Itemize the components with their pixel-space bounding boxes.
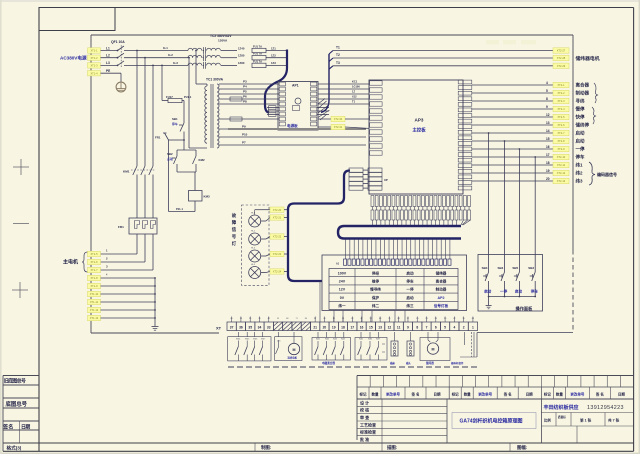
wire lamp 1 to cable [284, 217, 289, 219]
svg-text:停车: 停车 [576, 154, 585, 161]
centering marks [12, 159, 29, 298]
svg-text:启动: 启动 [515, 288, 523, 293]
terminal XT1-4 [88, 71, 101, 76]
terminal XT2-7 [553, 130, 569, 135]
connector J1 socket [390, 332, 398, 365]
svg-text:标记: 标记 [451, 391, 460, 396]
wire AP1 to AP3 signal lines [318, 80, 369, 104]
wire TC1 secondary taps P3-P8 [219, 80, 279, 121]
svg-text:L2: L2 [106, 54, 110, 58]
svg-text:纬1: 纬1 [576, 162, 583, 169]
terminal XT2-9 [553, 146, 569, 151]
svg-text:8: 8 [416, 326, 418, 330]
terminal XT1-3 [88, 63, 101, 68]
svg-text:PE: PE [106, 69, 110, 73]
wire output 15 启动 [472, 137, 553, 141]
supplier info cell [541, 399, 633, 443]
svg-text:6: 6 [435, 326, 437, 330]
connector XS column [349, 168, 368, 190]
svg-text:21: 21 [313, 326, 317, 330]
svg-text:SB4: SB4 [498, 266, 504, 270]
svg-text:0V: 0V [340, 296, 345, 300]
svg-text:P5: P5 [243, 90, 247, 94]
svg-text:KM1: KM1 [123, 170, 130, 174]
svg-text:编码器信号: 编码器信号 [597, 171, 617, 177]
svg-text:FU1 7A: FU1 7A [253, 52, 262, 56]
coil KM3 contactor [169, 172, 210, 212]
svg-text:T1: T1 [336, 46, 340, 50]
svg-text:12V: 12V [339, 288, 346, 292]
svg-text:P10: P10 [242, 133, 248, 137]
svg-text:L3: L3 [106, 61, 110, 65]
svg-text:XT1-10: XT1-10 [90, 292, 99, 296]
svg-text:停车: 停车 [406, 279, 414, 284]
contactor KM1 main poles [123, 162, 155, 177]
terminal XT1-12 [88, 307, 101, 312]
svg-text:1: 1 [472, 326, 474, 330]
svg-text:旧底图总号: 旧底图总号 [4, 378, 26, 385]
wire lamp 3 to cable [284, 253, 289, 255]
terminal XT1-10 [88, 291, 101, 296]
svg-text:签 名: 签 名 [503, 391, 512, 396]
svg-text:日期: 日期 [526, 391, 534, 396]
svg-text:校 核: 校 核 [360, 407, 369, 413]
svg-text:SB1: SB1 [172, 117, 178, 121]
svg-text:离合器: 离合器 [436, 279, 447, 284]
label main motor [63, 252, 88, 272]
svg-text:更改单号: 更改单号 [570, 391, 584, 396]
wire lamp 2 to cable [284, 236, 289, 238]
wire cable AP1 right to T-group [321, 51, 333, 113]
wire output 18 纬1 [472, 161, 553, 165]
terminal XT2-27 [553, 48, 569, 53]
svg-text:36: 36 [239, 326, 243, 330]
terminal XT1-6 [88, 259, 101, 264]
svg-text:电源板: 电源板 [287, 123, 298, 128]
motor M1 weft selector box [275, 332, 302, 361]
brace stop group [592, 107, 596, 124]
svg-text:数量: 数量 [371, 391, 380, 396]
wire stubs above strip [232, 317, 473, 323]
node control tap [161, 65, 163, 101]
svg-text:丰田纺织板供应: 丰田纺织板供应 [544, 404, 579, 411]
motor M2 weft accumulator box [420, 332, 450, 365]
button SB4 启动 [482, 254, 492, 297]
connector J2 socket [406, 332, 414, 365]
svg-text:SB3: SB3 [528, 266, 534, 270]
svg-text:纬3: 纬3 [576, 178, 583, 185]
terminal XT1-11 [88, 299, 101, 304]
wire PE to earth [101, 69, 122, 82]
op-board AP2 signal lamp board [322, 255, 467, 311]
svg-text:100V: 100V [338, 271, 347, 275]
svg-text:37: 37 [230, 326, 234, 330]
svg-text:慢停: 慢停 [576, 106, 585, 113]
svg-text:1Z1: 1Z1 [271, 46, 276, 50]
svg-text:KM2: KM2 [199, 158, 205, 162]
svg-text:操纵杆组件: 操纵杆组件 [451, 361, 464, 365]
wire XT box1 to frame right [477, 332, 573, 334]
wire thick cable into AP1 left [265, 50, 287, 113]
panel operator box [478, 255, 543, 312]
svg-text:签 名: 签 名 [411, 391, 420, 396]
svg-text:QF1 10A: QF1 10A [111, 40, 125, 44]
terminal XT1-5 [88, 251, 101, 256]
svg-text:第 1 张: 第 1 张 [580, 418, 592, 423]
svg-text:5: 5 [444, 326, 446, 330]
signal lamp group fault indicator [232, 205, 269, 285]
svg-text:1Z2: 1Z2 [271, 54, 276, 58]
wire lever assembly drops [451, 332, 477, 365]
svg-text:标记: 标记 [359, 391, 368, 396]
title block table [357, 376, 634, 441]
wire output 19 纬2 [472, 169, 553, 173]
svg-text:XT2-7: XT2-7 [557, 131, 565, 135]
top-left stamp box [39, 8, 115, 31]
svg-text:120VA: 120VA [218, 39, 228, 43]
svg-text:20: 20 [323, 326, 327, 330]
svg-text:XT2-1: XT2-1 [557, 83, 565, 87]
svg-text:XT2-24: XT2-24 [273, 270, 282, 274]
svg-text:日期: 日期 [434, 391, 442, 396]
svg-text:13: 13 [546, 121, 550, 125]
svg-text:XT1-9: XT1-9 [90, 284, 98, 288]
connector XP column AP3 lower-left pins [368, 168, 388, 190]
svg-text:XT2-4: XT2-4 [557, 107, 565, 111]
svg-text:11: 11 [397, 326, 401, 330]
svg-text:12: 12 [388, 326, 392, 330]
wire output 12 快停 [472, 113, 553, 117]
svg-text:纬三: 纬三 [406, 303, 414, 308]
connector second pin row [371, 210, 471, 220]
terminal XT1-8 [88, 275, 101, 280]
svg-text:1Z40: 1Z40 [238, 46, 245, 50]
wire output 14 启动 [472, 129, 553, 133]
svg-text:储纬停: 储纬停 [576, 122, 590, 129]
svg-text:4: 4 [453, 326, 455, 330]
svg-text:比例: 比例 [544, 418, 551, 423]
svg-text:启动: 启动 [576, 130, 585, 137]
svg-text:TC1 300VA: TC1 300VA [206, 78, 224, 82]
svg-text:标准检查: 标准检查 [359, 429, 376, 435]
svg-text:XT2-31: XT2-31 [334, 125, 343, 129]
svg-text:XT1-12: XT1-12 [90, 308, 99, 312]
svg-text:XT1-3: XT1-3 [90, 64, 98, 68]
wire TC1 primary feeds [188, 50, 197, 148]
svg-text:纬一: 纬一 [338, 303, 346, 308]
wire thick cable lamps bus [288, 171, 350, 282]
AP3 left pin headers [370, 81, 383, 155]
svg-text:1L1: 1L1 [163, 46, 168, 50]
svg-text:启动: 启动 [406, 270, 414, 275]
wire output 16 一停 [472, 145, 553, 149]
svg-text:P9: P9 [242, 125, 246, 129]
wire panel common [489, 297, 536, 306]
svg-text:慢寻纬: 慢寻纬 [370, 287, 381, 292]
op-board AP3 main control board [369, 80, 463, 194]
svg-text:SB4: SB4 [482, 266, 488, 270]
svg-text:X12: X12 [352, 95, 357, 99]
svg-text:插座: 插座 [390, 361, 395, 365]
terminal XT2-3 [553, 98, 569, 103]
svg-text:18: 18 [341, 326, 345, 330]
svg-text:13912954223: 13912954223 [587, 405, 624, 411]
terminal XT1-7 [88, 267, 101, 272]
svg-text:XT2-9: XT2-9 [557, 147, 565, 151]
wire lamp common feed [255, 210, 270, 215]
svg-text:1L2: 1L2 [168, 53, 173, 57]
svg-text:XT2-11: XT2-11 [557, 163, 566, 167]
svg-text:35: 35 [248, 326, 252, 330]
terminal XT2-29 [553, 63, 569, 68]
svg-text:SB2: SB2 [167, 152, 173, 156]
terminal strip XT [216, 318, 478, 330]
svg-text:储纬器电机: 储纬器电机 [575, 55, 600, 62]
terminal XT2-22 [270, 234, 284, 239]
svg-text:启动: 启动 [484, 288, 492, 293]
AP3 right pin headers [458, 80, 472, 190]
svg-text:XT2-6: XT2-6 [557, 123, 565, 127]
svg-text:XT2-3: XT2-3 [557, 99, 565, 103]
svg-text:1Z: 1Z [352, 90, 355, 94]
svg-text:1Z80: 1Z80 [238, 54, 245, 58]
svg-text:电磁离合器: 电磁离合器 [322, 361, 335, 365]
svg-text:33: 33 [267, 326, 271, 330]
svg-text:XT1-6: XT1-6 [90, 260, 98, 264]
svg-text:XT2-21: XT2-21 [273, 216, 282, 220]
svg-text:FR1: FR1 [155, 136, 161, 140]
wire output 4 离合器 [472, 81, 553, 85]
svg-text:插头: 插头 [406, 361, 411, 365]
svg-text:更改单号: 更改单号 [478, 391, 492, 396]
lamp HL2 [249, 231, 270, 246]
svg-text:12: 12 [546, 113, 550, 117]
svg-text:15: 15 [369, 326, 373, 330]
svg-text:描图:: 描图: [386, 444, 398, 451]
terminal XT2-23 [270, 251, 284, 256]
transformer TC1 300VA [189, 78, 224, 149]
node phase taps to motor branch [136, 50, 154, 67]
wire output 20 纬3 [472, 177, 553, 181]
svg-text:T2: T2 [336, 53, 340, 57]
svg-text:主控板: 主控板 [412, 127, 426, 134]
under-strip bottom dashed rail [228, 366, 477, 368]
svg-text:寻纬: 寻纬 [576, 98, 585, 105]
terminal XT2-2 [553, 90, 569, 95]
wire common to cable [284, 209, 289, 211]
svg-text:16: 16 [546, 145, 550, 149]
svg-text:5: 5 [546, 89, 548, 93]
svg-text:TC2 380V/42V: TC2 380V/42V [210, 34, 232, 38]
wire long rails P9 P10 P7 [219, 125, 366, 145]
svg-text:T3: T3 [336, 61, 340, 65]
svg-text:XT2-8: XT2-8 [557, 139, 565, 143]
svg-text:34: 34 [258, 326, 262, 330]
wire output 5 制动器 [472, 89, 553, 93]
svg-text:KM3: KM3 [204, 195, 210, 199]
svg-text:1L3: 1L3 [173, 61, 178, 65]
svg-text:制图:: 制图: [261, 444, 272, 451]
svg-text:XT1-7: XT1-7 [90, 268, 98, 272]
svg-text:XT2-12: XT2-12 [557, 171, 566, 175]
terminal XT2-4 [553, 106, 569, 111]
wire AP2 to strip stubs [320, 281, 405, 322]
terminal XT2-30 [318, 118, 331, 120]
svg-text:日期: 日期 [618, 391, 626, 396]
brace encoder signal group [589, 162, 617, 185]
table AP2 signal definitions [329, 269, 458, 310]
svg-text:PJ1-1: PJ1-1 [176, 207, 183, 211]
svg-text:一停: 一停 [406, 287, 414, 292]
terminal XT2-11 [553, 162, 569, 167]
wire drops to operator panel [488, 132, 536, 254]
svg-text:储纬器: 储纬器 [435, 270, 447, 275]
svg-text:P4: P4 [243, 85, 247, 89]
svg-text:8: 8 [546, 97, 548, 101]
svg-text:XT2-10: XT2-10 [557, 155, 566, 159]
svg-text:P8: P8 [243, 100, 247, 104]
svg-text:XT1-8: XT1-8 [90, 276, 98, 280]
contact FR1 auxiliary [155, 133, 185, 212]
svg-text:XT: XT [216, 325, 222, 330]
svg-text:操作面板: 操作面板 [516, 305, 534, 312]
svg-text:停车: 停车 [531, 288, 539, 293]
wire lamp 4 to cable [284, 271, 289, 273]
wire FR1 to motor terminals U V W [101, 234, 154, 270]
svg-text:1Z80: 1Z80 [238, 61, 245, 65]
schematic boundary frame [91, 35, 573, 333]
svg-text:FR1: FR1 [118, 225, 124, 229]
svg-text:XT2-2: XT2-2 [557, 91, 565, 95]
button SB4 一停 [498, 254, 508, 297]
left margin document-number boxes [2, 376, 39, 452]
svg-text:M: M [432, 347, 435, 351]
svg-text:1Z3: 1Z3 [271, 61, 276, 65]
breaker QF1 10A [111, 40, 125, 67]
lamp HL1 [249, 213, 270, 228]
terminal XT2-13 [553, 178, 569, 183]
svg-text:一停: 一停 [576, 146, 585, 153]
relay FR1 thermal overload [118, 218, 157, 234]
svg-text:设 计: 设 计 [360, 399, 369, 405]
svg-text:停经: 停经 [372, 270, 380, 275]
wire stubs into ribbon bus [372, 220, 470, 225]
label motor wire numbers [106, 249, 108, 277]
svg-text:选纬电机: 选纬电机 [288, 355, 298, 359]
drawing title cell [452, 413, 536, 429]
wire XT2-30 to AP3 [345, 118, 369, 120]
svg-text:底图总号: 底图总号 [6, 400, 28, 408]
title block signature rows [357, 399, 447, 443]
transformer TC2 380V/42V 120VA [188, 34, 237, 69]
svg-text:XT1-2: XT1-2 [90, 56, 98, 60]
svg-text:FU1 7A: FU1 7A [253, 44, 262, 48]
ground symbol motor bus [152, 321, 159, 330]
wire AP1 left feed stubs [267, 106, 279, 117]
brace clutch group [594, 83, 598, 103]
terminal XT2-10 [553, 154, 569, 159]
terminal XT2-8 [553, 138, 569, 143]
AP3 bottom pin row [371, 196, 471, 211]
svg-text:签 名: 签 名 [2, 423, 13, 430]
svg-text:AP2: AP2 [438, 296, 445, 300]
svg-text:制动器: 制动器 [436, 287, 447, 292]
svg-text:9: 9 [407, 326, 409, 330]
wire T1 T2 T3 to weft accumulator [333, 46, 553, 66]
contact group weft selection KM4-KM7 [228, 332, 271, 361]
svg-text:数量: 数量 [463, 391, 472, 396]
svg-text:点动: 点动 [167, 156, 173, 161]
terminal XT2-1 [553, 82, 569, 87]
terminal XT2-20 [270, 207, 284, 212]
svg-text:KC1: KC1 [352, 80, 358, 84]
svg-text:保护: 保护 [371, 295, 380, 300]
svg-text:更改单号: 更改单号 [386, 391, 400, 396]
svg-text:XP: XP [384, 178, 388, 182]
svg-text:XT2-20: XT2-20 [273, 208, 282, 212]
svg-text:启动: 启动 [406, 295, 414, 300]
svg-text:格式(3): 格式(3) [7, 444, 22, 451]
ground symbol panel [486, 306, 492, 309]
op-board AP1 power supply board [278, 82, 318, 131]
svg-text:离合器: 离合器 [576, 82, 590, 89]
fuse FU1 7A group with 1Z wires [238, 44, 287, 67]
svg-text:数量: 数量 [555, 391, 564, 396]
svg-text:AP1: AP1 [292, 84, 299, 88]
svg-text:GA74剑杆织机电控箱原理图: GA74剑杆织机电控箱原理图 [459, 418, 522, 425]
switch SB1 stop button [172, 117, 184, 140]
svg-text:SB5: SB5 [512, 266, 518, 270]
svg-text:16: 16 [360, 326, 364, 330]
svg-text:19: 19 [332, 326, 336, 330]
svg-text:储纬器: 储纬器 [426, 361, 434, 365]
wire AP1 right bundle rows [317, 108, 329, 115]
terminal XT2-21 [270, 215, 284, 220]
wire output 13 储纬停 [472, 121, 553, 125]
svg-text:纬二: 纬二 [372, 303, 380, 308]
switch SB2 jog button with KM2 contact [167, 140, 205, 172]
contact group brake [355, 332, 387, 360]
svg-text:4: 4 [546, 81, 548, 85]
terminal XT1-13 [88, 315, 101, 320]
wire jog diagonals AP1 to AP3 [318, 99, 330, 121]
svg-text:启动: 启动 [576, 138, 585, 145]
wire output 8 寻纬 [472, 97, 553, 101]
svg-text:停车: 停车 [172, 121, 178, 126]
fuse FU17 control [162, 95, 192, 120]
svg-text:XT1-4: XT1-4 [90, 71, 98, 75]
svg-text:17: 17 [350, 326, 354, 330]
svg-text:13: 13 [378, 326, 382, 330]
ground earth symbol PE [116, 82, 126, 92]
svg-text:7: 7 [426, 326, 428, 330]
svg-text:15: 15 [546, 137, 550, 141]
wire KM1 to FR1 [137, 177, 153, 218]
svg-text:L1: L1 [106, 46, 110, 50]
terminal XT1-2 [88, 55, 101, 60]
terminal XT2-24 [270, 269, 284, 274]
svg-text:P7: P7 [242, 141, 246, 145]
svg-text:9: 9 [546, 105, 548, 109]
svg-text:PJ1-1: PJ1-1 [184, 95, 192, 99]
svg-text:签 名: 签 名 [595, 391, 604, 396]
terminal XT2-5 [553, 114, 569, 119]
wire fan bus to AP2 connector [346, 240, 450, 260]
svg-text:XT2-30: XT2-30 [334, 117, 343, 121]
svg-text:14: 14 [546, 129, 550, 133]
button SB5 启动 [512, 254, 522, 297]
svg-text:XT1-11: XT1-11 [90, 300, 99, 304]
